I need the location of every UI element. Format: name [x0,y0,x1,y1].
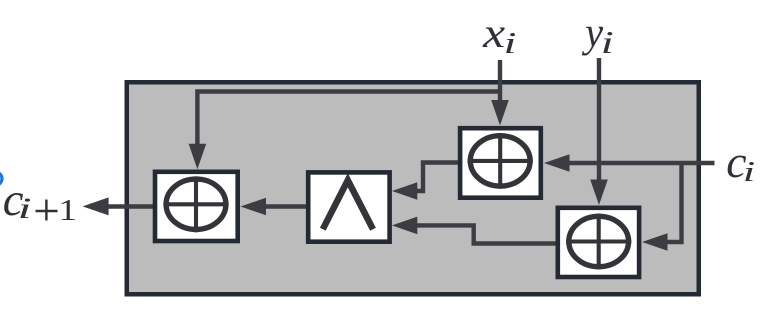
arrowhead into AND upper input [392,182,417,200]
blue ring fragment at left edge [0,172,2,185]
arrowhead output to c_{i+1} [83,197,109,215]
XOR gate G2 symbol: ellipse + cross [566,214,631,270]
arrowhead into bottom XOR from c_i branch [642,233,668,251]
wire: x_i input vertical [498,60,502,103]
wire: AND output to left XOR [264,204,308,208]
wire: top XOR output to AND upper input [415,163,459,192]
wire: bottom XOR output to AND lower input [415,225,556,243]
wire: left XOR output to c_{i+1} [107,204,153,208]
svg-text:1: 1 [59,193,77,227]
wire: feedback from x_i node across top and down to left XOR [197,92,500,148]
label c_{i+1} [3,174,77,227]
wire: c_i branch down to bottom XOR [665,163,682,242]
label y_i [582,10,614,61]
arrowhead into left XOR from feedback wire [189,144,207,170]
arrowhead into bottom XOR from y_i [590,180,608,206]
XOR gate G3 symbol: ellipse + cross [163,176,228,232]
svg-text:i: i [504,25,517,60]
XOR gate G1 symbol: ellipse + cross [468,133,533,189]
AND gate symbol: wedge [323,180,373,229]
wire: c_i horizontal into top XOR [567,161,715,165]
wire: y_i input vertical [597,58,601,182]
svg-text:x: x [482,11,506,57]
enclosing box [127,82,699,294]
label c_i [726,136,755,188]
XOR gate G2 (bottom right, y_i ⊕ c_i): square [558,208,639,277]
arrowhead into left XOR from AND [241,198,267,216]
AND gate (wedge symbol): square [308,172,389,241]
arrowhead into top XOR from c_i [544,154,570,172]
arrowhead into top XOR from x_i [491,100,509,126]
arrowhead into AND lower input [392,217,417,235]
XOR gate G1 (top, x_i ⊕ c_i): square [460,128,541,198]
svg-text:i: i [18,192,32,225]
label x_i [482,11,516,60]
svg-text:i: i [743,156,756,188]
XOR gate G3 (left output gate): square [155,172,238,241]
svg-text:i: i [601,25,614,60]
